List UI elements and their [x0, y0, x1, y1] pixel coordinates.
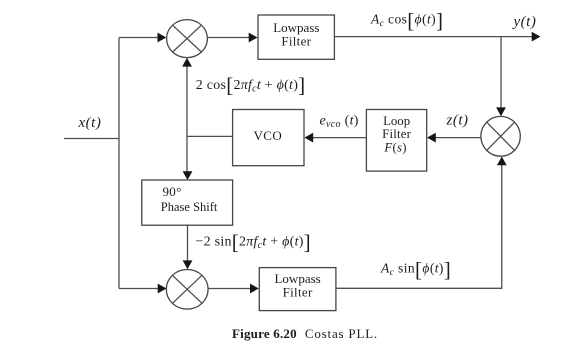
svg-text:Filter: Filter [281, 33, 311, 48]
svg-text:2 cos[2πfct + ϕ(t)]: 2 cos[2πfct + ϕ(t)] [196, 73, 306, 97]
svg-text:evco (t): evco (t) [320, 113, 359, 130]
svg-text:Ac sin[ϕ(t)]: Ac sin[ϕ(t)] [380, 258, 451, 282]
loop filter block [366, 110, 426, 172]
lowpass filter block (top) [258, 15, 334, 59]
svg-text:Ac cos[ϕ(t)]: Ac cos[ϕ(t)] [370, 8, 443, 32]
wire: drop from y(t) line to right multiplier [500, 37, 502, 110]
wire: loop filter to VCO (e_vco) [311, 137, 366, 139]
wire: left bus to top multiplier [119, 37, 160, 39]
svg-text:Phase Shift: Phase Shift [161, 200, 218, 214]
VCO block [233, 110, 304, 166]
svg-text:z(t): z(t) [446, 113, 469, 129]
multiplier M3 (bottom) [166, 270, 208, 310]
svg-text:F(s): F(s) [383, 140, 407, 154]
wire: VCO to middle vertical bus [187, 135, 233, 137]
svg-text:y(t): y(t) [512, 14, 537, 30]
multiplier M2 (right) [481, 116, 520, 156]
wire: M1 to top lowpass filter [207, 37, 251, 39]
wire: middle vertical bus (to M1 up, to phase shift down) [186, 60, 188, 173]
wire: M3 to bottom lowpass filter [208, 288, 252, 290]
svg-text:VCO: VCO [253, 128, 282, 143]
wire: M2 to loop filter (z(t)) [434, 137, 481, 139]
wire: phase shift to bottom multiplier [187, 225, 189, 262]
phase shift block [142, 180, 233, 225]
svg-text:Filter: Filter [283, 285, 313, 300]
lowpass filter block (bottom) [259, 268, 336, 311]
svg-text:Filter: Filter [382, 127, 411, 141]
wire: x(t) input line [64, 138, 119, 140]
wire: left vertical bus [118, 38, 120, 289]
wire: left bus to bottom multiplier [119, 288, 160, 290]
multiplier M1 (top) [167, 20, 208, 58]
wire: bottom output up to M2 [336, 163, 502, 288]
svg-text:−2 sin[2πfct + ϕ(t)]: −2 sin[2πfct + ϕ(t)] [196, 230, 311, 254]
svg-text:x(t): x(t) [78, 115, 102, 131]
svg-text:Figure 6.20 Costas PLL.: Figure 6.20 Costas PLL. [232, 326, 378, 341]
wire: top output line to y(t) [334, 36, 533, 38]
svg-text:90°: 90° [163, 184, 182, 199]
